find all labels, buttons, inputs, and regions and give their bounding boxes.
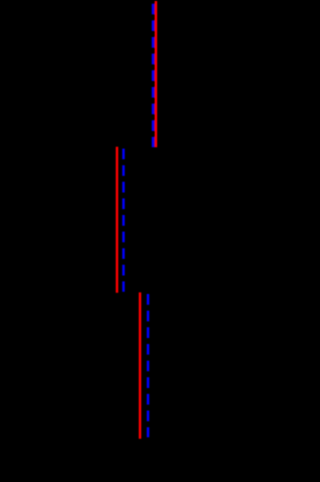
blue dashed line segment 1 (top) [152,4,154,148]
red solid line segment 2 (middle) [116,147,118,293]
red solid line segment 1 (top) [155,1,157,147]
red solid line segment 3 (bottom) [139,292,141,438]
blue dashed line segment 3 (bottom) [147,294,149,437]
blue dashed line segment 2 (middle) [122,149,124,292]
